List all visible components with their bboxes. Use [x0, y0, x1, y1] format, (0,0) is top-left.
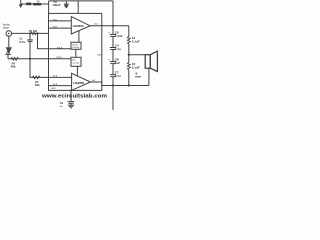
wire bias link	[75, 49, 77, 57]
IC U1 box	[49, 13, 102, 90]
capacitor C5	[52, 1, 68, 7]
wire zobel rail upper	[128, 26, 130, 37]
wire feedback row	[8, 58, 71, 60]
node input junction	[29, 32, 31, 34]
svg-text:ohm: ohm	[135, 75, 142, 79]
svg-text:LM4862: LM4862	[73, 81, 84, 85]
op-amp U1B	[72, 73, 91, 90]
wire op-amp B in2	[49, 85, 72, 87]
wire Vo1 output	[90, 25, 129, 27]
speaker LS1	[145, 51, 157, 71]
ground feedback leg	[5, 52, 11, 59]
wire VDD top rail	[49, 0, 113, 2]
svg-text:20k: 20k	[11, 65, 16, 69]
wire input top	[12, 32, 49, 34]
svg-text:www.ecircuitslab.com: www.ecircuitslab.com	[41, 93, 107, 99]
node bypass stem	[70, 90, 72, 92]
wire bias drop 2	[76, 66, 78, 76]
svg-text:0.1uF: 0.1uF	[132, 39, 140, 43]
capacitor C6	[108, 30, 123, 38]
battery B1	[26, 0, 41, 5]
node tap junction	[36, 32, 38, 34]
svg-text:9V: 9V	[37, 0, 40, 3]
wire VDD pin drop	[77, 1, 79, 14]
wire tap drop	[38, 33, 72, 48]
wire speaker bottom riser	[148, 68, 150, 85]
connector J1 input jack	[6, 31, 12, 37]
node Vo1 rail junction	[112, 25, 114, 27]
svg-text:0.1u: 0.1u	[19, 40, 25, 44]
svg-text:Vdd: Vdd	[97, 55, 102, 57]
resistor R4	[127, 36, 139, 44]
svg-text:50k A: 50k A	[57, 46, 63, 49]
wire Vo2 output	[102, 85, 149, 87]
node Vo2 rail junction	[112, 84, 114, 86]
wire bypass cap stem	[70, 90, 72, 101]
wire supply top-left horizontal	[21, 3, 49, 5]
svg-text:1uF: 1uF	[115, 61, 121, 65]
capacitor C1	[19, 33, 32, 58]
svg-text:Bias: Bias	[72, 60, 76, 62]
svg-text:10k: 10k	[35, 83, 40, 87]
ground jack	[6, 47, 12, 53]
node Vo2 zobel junction	[128, 84, 130, 86]
wire op-amp B in1	[49, 76, 72, 78]
wire lower input drop	[30, 59, 49, 78]
block bias B	[71, 57, 81, 66]
wire op-amp A in1	[49, 20, 72, 22]
svg-text:2.2uF: 2.2uF	[115, 34, 123, 38]
wire zobel rail mid	[128, 44, 130, 63]
resistor R3	[33, 76, 40, 87]
wire Vo2 pin jog	[101, 82, 103, 86]
capacitor C7	[110, 71, 121, 79]
svg-text:100uF: 100uF	[52, 3, 60, 7]
capacitor C4	[110, 43, 121, 51]
label Audio Input	[3, 22, 11, 29]
wire op-amp A in2	[49, 27, 72, 29]
wire speaker top	[129, 54, 147, 56]
wire zobel rail lower	[128, 70, 130, 86]
wire jack ground stem	[8, 36, 10, 47]
supply arrow top-left	[19, 0, 23, 8]
block bias A	[71, 42, 81, 49]
capacitor Cb	[60, 102, 75, 108]
wire bias drop 1	[78, 30, 80, 42]
svg-text:0.1u: 0.1u	[115, 47, 121, 51]
wire VDD left drop	[48, 1, 50, 14]
resistor R1	[29, 30, 38, 34]
svg-text:LM4862: LM4862	[73, 24, 84, 28]
resistor R5	[127, 62, 139, 70]
label speaker 8 ohm	[135, 71, 142, 78]
ground C5	[64, 6, 68, 8]
wire bypass rail	[112, 1, 114, 110]
op-amp U1A	[71, 17, 90, 34]
svg-text:0.1uF: 0.1uF	[132, 66, 140, 70]
svg-text:4.7u: 4.7u	[115, 74, 121, 78]
node feedback junction	[29, 58, 31, 60]
wire Vo2 inside	[90, 81, 101, 83]
svg-text:Cb: Cb	[60, 102, 64, 105]
svg-text:Circuitry: Circuitry	[72, 61, 79, 64]
svg-text:Circuitry: Circuitry	[72, 46, 79, 49]
svg-text:IN1 B: IN1 B	[56, 57, 62, 59]
svg-text:GND: GND	[51, 88, 56, 90]
capacitor C8	[108, 58, 120, 66]
svg-text:R1 10k: R1 10k	[29, 30, 38, 33]
resistor R2	[11, 57, 19, 68]
ground Cb	[68, 105, 74, 108]
svg-text:1u: 1u	[60, 106, 63, 108]
node speaker tap	[128, 54, 130, 56]
svg-text:Input: Input	[3, 25, 9, 29]
